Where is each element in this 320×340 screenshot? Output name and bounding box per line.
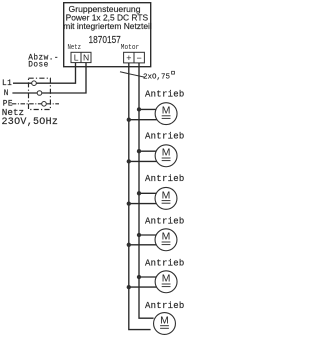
terminal node on N <box>37 91 42 96</box>
svg-text:2xO,75: 2xO,75 <box>143 73 171 81</box>
svg-text:23OV,5OHz: 23OV,5OHz <box>2 117 59 128</box>
control unit box U1 <box>64 3 151 67</box>
wire tap top M3 <box>139 192 158 194</box>
svg-text:Antrieb: Antrieb <box>145 259 185 269</box>
junction dot M3 bottom <box>127 201 131 205</box>
motor M5 <box>155 271 177 293</box>
svg-text:mit integriertem Netzteil: mit integriertem Netzteil <box>63 21 152 31</box>
junction dot M3 top <box>137 191 141 195</box>
svg-text:Motor: Motor <box>121 44 139 53</box>
wire - bus (right) <box>139 63 154 318</box>
wire L1 (mains L to terminal L) <box>13 63 76 84</box>
svg-text:N: N <box>4 90 9 98</box>
svg-text:Antrieb: Antrieb <box>145 132 185 142</box>
motor M6 <box>154 313 176 335</box>
cable marker leader line <box>120 72 145 78</box>
svg-text:M: M <box>162 274 171 285</box>
junction dot M5 bottom <box>127 285 131 289</box>
junction dot M1 bottom <box>127 118 131 122</box>
motor M2 <box>155 145 177 167</box>
wire + bus (left) <box>129 63 151 330</box>
svg-text:Antrieb: Antrieb <box>145 89 185 99</box>
wire PE (dash-dot) <box>12 103 59 105</box>
svg-text:L1: L1 <box>2 80 12 88</box>
junction dot M4 bottom <box>127 243 131 247</box>
junction dot M2 top <box>137 149 141 153</box>
terminal node on L1 <box>32 81 37 86</box>
svg-text:M: M <box>160 315 169 326</box>
junction box Abzw.-Dose (dash-dot outline) <box>29 78 51 109</box>
svg-text:−: − <box>137 53 142 63</box>
motor M3 <box>155 187 177 209</box>
svg-text:Antrieb: Antrieb <box>145 216 185 226</box>
svg-text:+: + <box>126 53 131 63</box>
motor M4 <box>155 229 177 251</box>
wire tap bottom M3 <box>129 203 158 205</box>
wire tap bottom M2 <box>129 160 158 162</box>
wire tap bottom M4 <box>129 244 158 246</box>
svg-text:M: M <box>162 148 171 159</box>
svg-text:1870157: 1870157 <box>89 34 121 46</box>
svg-text:Dose: Dose <box>28 61 49 69</box>
wire tap top M2 <box>139 150 158 152</box>
terminal block Netz L N <box>71 52 91 62</box>
svg-text:M: M <box>162 106 171 117</box>
svg-text:M: M <box>162 232 171 243</box>
label: superscript square (mm2) <box>172 71 175 74</box>
wire tap top M4 <box>139 234 158 236</box>
junction dot M5 top <box>137 275 141 279</box>
wire tap top M5 <box>139 276 158 278</box>
junction dot M1 top <box>137 107 141 111</box>
terminal block Motor + - <box>124 52 145 63</box>
terminal node on PE <box>42 102 47 107</box>
svg-text:Antrieb: Antrieb <box>145 301 185 311</box>
wire N (mains N to terminal N) <box>12 63 86 93</box>
wire tap bottom M5 <box>129 286 158 288</box>
wire tap top M1 <box>139 108 158 110</box>
junction dot M4 top <box>137 233 141 237</box>
svg-text:N: N <box>83 53 89 63</box>
junction dot M2 bottom <box>127 159 131 163</box>
motor M1 <box>155 103 177 125</box>
svg-text:Netz: Netz <box>68 42 81 51</box>
svg-text:Antrieb: Antrieb <box>145 174 185 184</box>
svg-text:L: L <box>74 53 79 63</box>
wire tap bottom M1 <box>129 119 158 121</box>
svg-text:M: M <box>162 190 171 201</box>
